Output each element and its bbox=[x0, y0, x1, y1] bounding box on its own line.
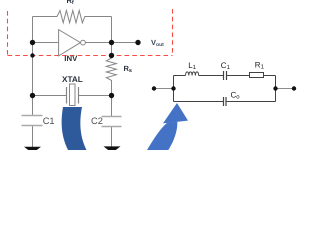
svg-text:C2: C2 bbox=[91, 116, 103, 126]
svg-text:XTAL: XTAL bbox=[62, 75, 83, 84]
svg-text:Co: Co bbox=[231, 91, 241, 101]
svg-text:Rf: Rf bbox=[67, 0, 74, 6]
svg-text:Rs: Rs bbox=[124, 64, 132, 74]
svg-text:L1: L1 bbox=[188, 61, 196, 71]
svg-text:C1: C1 bbox=[43, 116, 55, 126]
svg-text:INV: INV bbox=[64, 54, 78, 63]
svg-text:C1: C1 bbox=[221, 61, 231, 71]
svg-text:Vout: Vout bbox=[151, 38, 164, 48]
svg-text:R1: R1 bbox=[255, 60, 265, 70]
